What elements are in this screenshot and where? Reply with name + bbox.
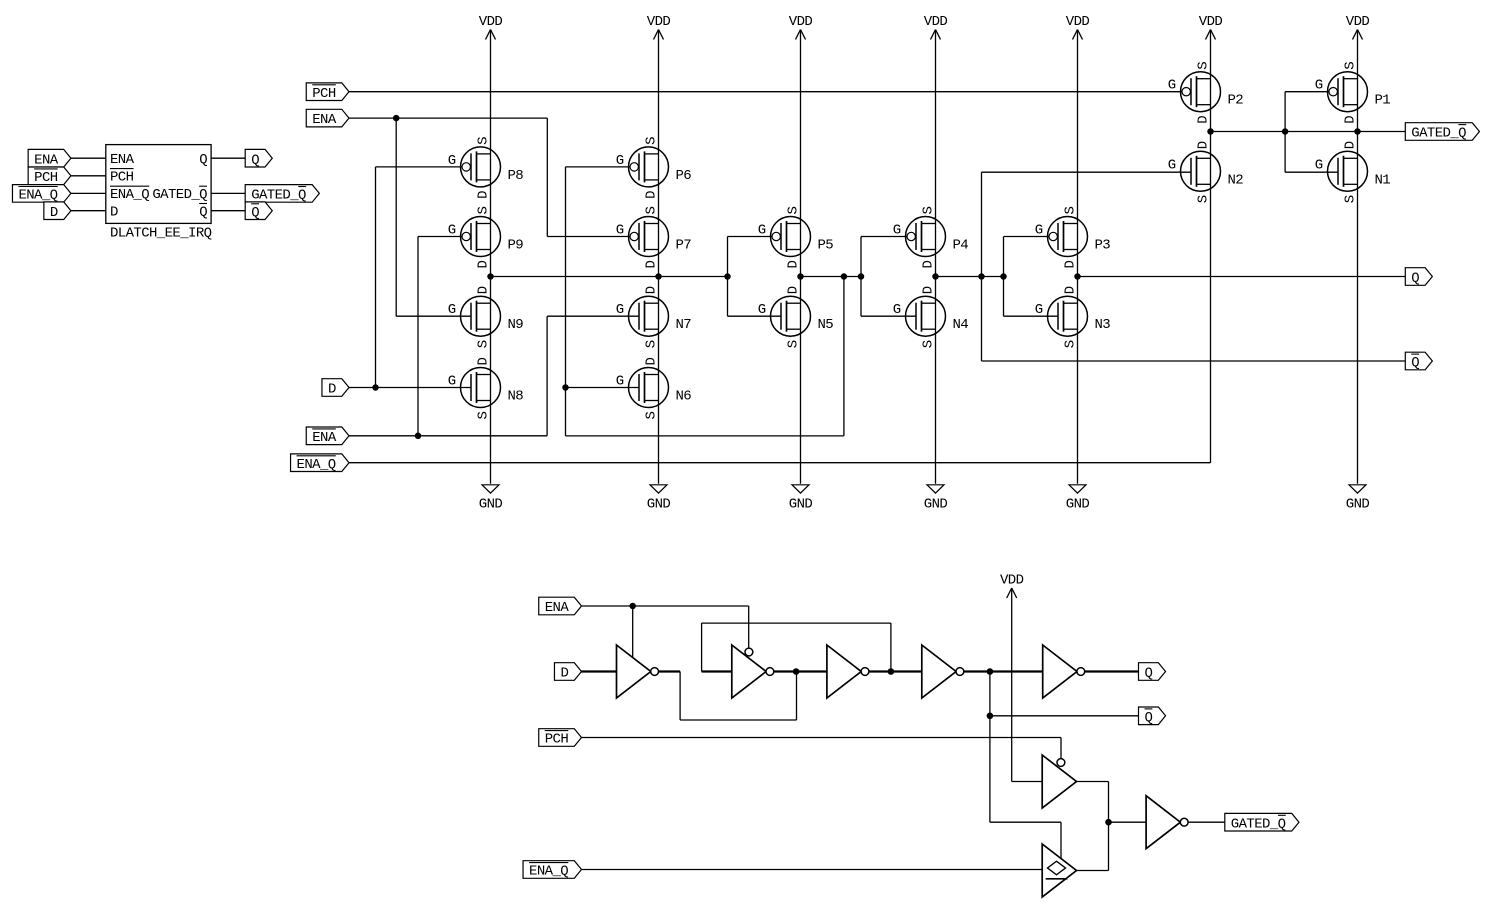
transistor N1 — [1315, 141, 1391, 203]
junction U4 output — [888, 668, 895, 675]
svg-text:D: D — [921, 286, 937, 294]
wire VDD-GND column 3 (P5/N5) — [800, 30, 802, 484]
svg-text:ENA_Q: ENA_Q — [297, 457, 336, 473]
svg-text:VDD: VDD — [789, 14, 813, 30]
svg-text:GATED_Q: GATED_Q — [251, 188, 306, 204]
wire node X (tristate outputs to P5/N5 gates) — [491, 237, 782, 317]
svg-text:S: S — [786, 340, 802, 348]
junction ENA enable — [629, 603, 636, 610]
svg-text:GND: GND — [924, 496, 948, 512]
junction at P3/N3 drains — [1074, 273, 1081, 280]
net label ENA_Q-bar input — [291, 454, 349, 473]
svg-text:ENA: ENA — [34, 152, 59, 168]
net label PCH input — [306, 83, 349, 102]
net label Q-bar output — [1405, 352, 1432, 371]
net label ENA_Q (U1 input) — [12, 185, 70, 204]
svg-text:Q: Q — [1145, 666, 1153, 682]
svg-text:GATED_Q: GATED_Q — [1231, 816, 1286, 832]
svg-text:VDD: VDD — [479, 14, 503, 30]
transistor P5 — [758, 207, 834, 269]
wire U8 output to node C — [1077, 870, 1109, 872]
wire VDD to U7 input — [1012, 588, 1042, 782]
wire U1 pin stubs — [71, 158, 245, 211]
power VDD (x=800) — [789, 14, 813, 40]
svg-text:G: G — [893, 302, 901, 318]
svg-text:S: S — [1196, 62, 1212, 70]
svg-text:D: D — [476, 191, 492, 199]
junction node X at P9/N9 drains — [487, 273, 494, 280]
svg-text:Q: Q — [251, 205, 259, 221]
wire U6 output to Q tag — [1085, 670, 1139, 672]
svg-text:GND: GND — [479, 496, 503, 512]
wire VDD-GND column 4 (P4/N4) — [935, 30, 937, 484]
svg-text:GND: GND — [1346, 496, 1370, 512]
net label ENA input — [306, 109, 349, 128]
junction node X gate tap — [724, 273, 731, 280]
svg-text:S: S — [921, 340, 937, 348]
svg-text:S: S — [1343, 195, 1359, 203]
svg-text:D: D — [644, 358, 660, 366]
svg-text:S: S — [644, 137, 660, 145]
svg-text:VDD: VDD — [1346, 14, 1370, 30]
svg-text:DLATCH_EE_IRQ: DLATCH_EE_IRQ — [110, 226, 212, 242]
svg-text:D: D — [1063, 286, 1079, 294]
transistor P4 — [893, 207, 969, 269]
svg-text:D: D — [921, 261, 937, 269]
junction at P1/N1 drains — [1354, 128, 1361, 135]
svg-text:ENA_Q: ENA_Q — [18, 188, 57, 204]
buffer U7 (PCH gated) — [1042, 755, 1076, 808]
junction U2/U3 outputs — [793, 668, 800, 675]
junction U5 output node — [987, 668, 994, 675]
transistor N2 — [1168, 141, 1244, 203]
transistor N7 — [616, 286, 692, 348]
svg-text:PCH: PCH — [545, 732, 569, 748]
svg-text:D: D — [786, 286, 802, 294]
svg-text:PCH: PCH — [110, 169, 134, 185]
wire Qbar branch and U8 enable — [990, 672, 1139, 859]
wire ENA enable net — [582, 606, 749, 658]
svg-text:S: S — [1063, 340, 1079, 348]
svg-text:S: S — [644, 340, 660, 348]
svg-text:VDD: VDD — [1066, 14, 1090, 30]
junction ENA-bar net — [415, 433, 422, 440]
ground GND (x=490) — [479, 485, 503, 513]
inverter U3 (tristate feedback) — [732, 645, 774, 698]
net label Q-bar (U1 output) — [245, 202, 272, 221]
transistor N3 — [1035, 286, 1111, 348]
svg-text:N7: N7 — [676, 317, 692, 333]
wire U4 output to U5 input — [869, 670, 922, 672]
svg-text:S: S — [1063, 207, 1079, 215]
junction Qbar tap — [987, 713, 994, 720]
svg-text:P1: P1 — [1375, 93, 1391, 109]
svg-text:Q: Q — [199, 152, 207, 168]
svg-text:D: D — [560, 666, 568, 682]
wire stage2 input net (P6/N6 gates from node Y) — [566, 167, 844, 436]
inverter U4 — [827, 645, 869, 698]
svg-text:S: S — [1343, 62, 1359, 70]
wire ENA-bar net — [349, 237, 639, 436]
net label ENA (gate level) — [539, 597, 582, 616]
wire D to inverter U2 input — [582, 670, 617, 672]
junction node Y feedback tap — [841, 273, 848, 280]
power VDD (x=658) — [647, 14, 671, 40]
svg-text:N5: N5 — [818, 317, 834, 333]
svg-text:D: D — [476, 261, 492, 269]
svg-text:S: S — [786, 207, 802, 215]
svg-text:D: D — [50, 205, 58, 221]
svg-text:GATED_Q: GATED_Q — [1411, 126, 1466, 142]
wire VDD-GND column 5 (P3/N3) — [1077, 30, 1079, 484]
junction node Y gate tap — [858, 273, 865, 280]
wire node Qbar-int (P4/N4 drains to P3/N3 gates, N2 gate, Qbar out) — [936, 172, 1406, 361]
svg-text:P4: P4 — [953, 238, 969, 254]
ground GND (x=800) — [789, 485, 813, 513]
svg-text:Q: Q — [1411, 355, 1419, 371]
power VDD (x=1210) — [1199, 14, 1223, 40]
net label PCH (gate level) — [539, 729, 582, 748]
svg-text:ENA: ENA — [110, 152, 135, 168]
svg-text:Q: Q — [251, 152, 259, 168]
svg-text:D: D — [476, 358, 492, 366]
svg-text:GND: GND — [647, 496, 671, 512]
net label D input — [322, 379, 349, 398]
svg-text:S: S — [644, 412, 660, 420]
svg-text:N1: N1 — [1375, 172, 1391, 188]
svg-text:S: S — [476, 207, 492, 215]
wire U2 output detour to node B — [680, 672, 796, 721]
transistor P1 — [1315, 62, 1391, 124]
svg-text:S: S — [476, 340, 492, 348]
net label D (gate level) — [554, 663, 581, 682]
svg-text:G: G — [1168, 78, 1176, 94]
transistor P3 — [1035, 207, 1111, 269]
wire U2 output stub — [658, 670, 680, 672]
ground GND (x=935) — [924, 485, 948, 513]
svg-text:ENA: ENA — [312, 430, 337, 446]
junction ENA net — [393, 115, 400, 122]
net label Q output — [1405, 268, 1432, 287]
power VDD (x=490) — [479, 14, 503, 40]
svg-text:GATED_Q: GATED_Q — [152, 187, 207, 203]
svg-text:D: D — [1063, 261, 1079, 269]
power VDD (x=1077) — [1066, 14, 1090, 40]
wire feedback from U4 output to U3 input — [702, 623, 891, 671]
svg-text:Q: Q — [199, 204, 207, 220]
wire U7 output to node C — [1077, 782, 1109, 871]
net label GATED_Q (U1 output) — [245, 185, 319, 204]
transistor P8 — [448, 137, 524, 199]
wire VDD-GND column 7 (P1/N1) — [1357, 30, 1359, 484]
svg-text:N6: N6 — [676, 389, 692, 405]
junction Qbar branch — [978, 273, 985, 280]
wire GATED_Q net (P2/N2 drains to P1/N1 gates and output) — [1211, 92, 1406, 173]
transistor P9 — [448, 207, 524, 269]
svg-text:N8: N8 — [508, 389, 524, 405]
svg-text:Q: Q — [1411, 271, 1419, 287]
junction node X at P7/N7 drains — [655, 273, 662, 280]
junction at P2/N2 drains — [1207, 128, 1214, 135]
inverter U6 (Q buffer) — [1043, 645, 1085, 698]
wire U5 output to U6 input — [964, 670, 1043, 672]
svg-text:D: D — [328, 382, 336, 398]
net label ENA-bar input — [306, 427, 349, 446]
svg-text:G: G — [448, 374, 456, 390]
svg-text:D: D — [476, 286, 492, 294]
wire U9 input — [1108, 821, 1146, 823]
junction at P4/N4 drains — [932, 273, 939, 280]
net label PCH (U1 input) — [28, 167, 71, 186]
svg-text:N3: N3 — [1095, 317, 1111, 333]
svg-text:D: D — [1343, 141, 1359, 149]
junction node C — [1105, 819, 1112, 826]
svg-text:D: D — [644, 191, 660, 199]
svg-text:D: D — [786, 261, 802, 269]
svg-text:ENA: ENA — [312, 112, 337, 128]
wire ENA_Q to U8 input — [582, 869, 1043, 871]
junction P3/N3 gate tap — [1000, 273, 1007, 280]
svg-text:G: G — [1315, 78, 1323, 94]
svg-text:P8: P8 — [508, 168, 524, 184]
svg-text:D: D — [1196, 116, 1212, 124]
transistor P2 — [1168, 62, 1244, 124]
wire U9 output to GATED_Q tag — [1188, 821, 1225, 823]
svg-text:D: D — [110, 204, 118, 220]
svg-text:S: S — [1196, 195, 1212, 203]
net label Q (U1 output) — [245, 149, 272, 168]
svg-text:G: G — [616, 223, 624, 239]
transistor P6 — [616, 137, 692, 199]
svg-text:G: G — [758, 302, 766, 318]
wire D net — [349, 167, 471, 388]
wire ENA_Q-bar net to N2 source — [349, 462, 1211, 464]
inverter U9 (GATED_Q driver) — [1146, 796, 1188, 849]
svg-text:D: D — [1343, 116, 1359, 124]
transistor N6 — [616, 358, 692, 420]
svg-text:S: S — [476, 137, 492, 145]
svg-text:G: G — [1315, 157, 1323, 173]
inverter U2 (tristate, ENA enable) — [617, 645, 659, 698]
svg-text:S: S — [644, 207, 660, 215]
wire PCH to U7 enable bubble — [582, 738, 1062, 759]
svg-text:G: G — [616, 374, 624, 390]
wire U3 input — [702, 670, 732, 672]
svg-text:G: G — [448, 153, 456, 169]
svg-text:PCH: PCH — [312, 86, 336, 102]
svg-text:S: S — [921, 207, 937, 215]
svg-text:G: G — [616, 153, 624, 169]
junction D net — [372, 384, 379, 391]
net label Q-bar (gate level) — [1139, 707, 1166, 726]
svg-text:N4: N4 — [953, 317, 969, 333]
svg-text:ENA_Q: ENA_Q — [110, 187, 149, 203]
svg-text:ENA: ENA — [545, 600, 570, 616]
svg-text:G: G — [758, 223, 766, 239]
svg-text:P6: P6 — [676, 168, 692, 184]
wire node Y (P5/N5 drains to P4/N4 gates) — [801, 237, 917, 317]
transistor P7 — [616, 207, 692, 269]
net label D (U1 input) — [44, 202, 71, 221]
net label Q (gate level) — [1139, 663, 1166, 682]
svg-text:VDD: VDD — [647, 14, 671, 30]
wire VDD-GND column 2 (P6/P7/N7/N6) — [658, 30, 660, 484]
svg-text:VDD: VDD — [1199, 14, 1223, 30]
net label GATED_Q (gate level) — [1225, 813, 1299, 832]
svg-text:PCH: PCH — [34, 170, 58, 186]
svg-text:P5: P5 — [818, 238, 834, 254]
wire ENA net — [349, 118, 630, 316]
svg-text:G: G — [1035, 302, 1043, 318]
svg-text:P7: P7 — [676, 238, 692, 254]
transistor N4 — [893, 286, 969, 348]
svg-text:ENA_Q: ENA_Q — [529, 864, 568, 880]
symbol U1 DLATCH_EE_IRQ box — [106, 145, 212, 242]
transistor N8 — [448, 358, 524, 420]
svg-text:GND: GND — [789, 496, 813, 512]
ground GND (x=1357) — [1346, 485, 1370, 513]
buffer U8 (open drain, ENA_Q) — [1042, 844, 1076, 897]
svg-text:P3: P3 — [1095, 238, 1111, 254]
wire U3 output to U4 input — [774, 670, 827, 672]
transistor N5 — [758, 286, 834, 348]
svg-text:S: S — [476, 412, 492, 420]
svg-text:G: G — [448, 302, 456, 318]
power VDD (x=1357) — [1346, 14, 1370, 40]
svg-text:G: G — [1035, 223, 1043, 239]
svg-text:G: G — [1168, 157, 1176, 173]
wire VDD-GND column 1 (P8/P9/N9/N8) — [490, 30, 492, 484]
power VDD (x=935) — [924, 14, 948, 40]
svg-text:N9: N9 — [508, 317, 524, 333]
power VDD (gate level) — [1000, 573, 1024, 599]
junction N6 gate — [562, 384, 569, 391]
svg-text:D: D — [644, 261, 660, 269]
ground GND (x=1077) — [1066, 485, 1090, 513]
svg-text:GND: GND — [1066, 496, 1090, 512]
svg-text:G: G — [893, 223, 901, 239]
svg-text:P2: P2 — [1228, 93, 1244, 109]
svg-text:P9: P9 — [508, 238, 524, 254]
wire PCH net to P2 gate — [349, 91, 1186, 93]
svg-text:Q: Q — [1145, 710, 1153, 726]
net label ENA_Q (gate level) — [523, 861, 581, 880]
ground GND (x=658) — [647, 485, 671, 513]
inverter U5 — [922, 645, 964, 698]
svg-text:G: G — [616, 302, 624, 318]
svg-text:VDD: VDD — [1000, 573, 1024, 589]
transistor N9 — [448, 286, 524, 348]
junction P1/N1 gate tap — [1282, 128, 1289, 135]
svg-text:D: D — [1196, 141, 1212, 149]
svg-text:VDD: VDD — [924, 14, 948, 30]
net label GATED_Q output — [1405, 123, 1479, 142]
svg-text:G: G — [448, 223, 456, 239]
wire node Q (P3/N3 drains to Q output) — [1078, 276, 1406, 278]
net label ENA (U1 input) — [28, 149, 71, 168]
wire VDD column 6 (P2/N2 to ENA_Q) — [1210, 30, 1212, 463]
svg-text:D: D — [644, 286, 660, 294]
svg-text:N2: N2 — [1228, 172, 1244, 188]
junction node Y at P5/N5 drains — [797, 273, 804, 280]
